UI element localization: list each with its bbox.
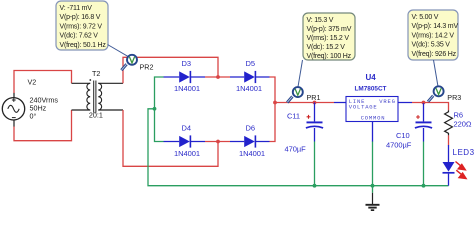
wire T2 secondary top to D3/D5 node (red) — [123, 57, 230, 83]
AC source V2 — [2, 93, 24, 127]
capacitor C11 — [285, 103, 324, 154]
diode D5 — [230, 59, 270, 93]
diode D3 — [164, 59, 206, 93]
svg-text:D6: D6 — [246, 124, 256, 133]
svg-text:COMMON: COMMON — [361, 114, 386, 121]
junction node D3-D5 — [216, 75, 220, 79]
wire C11 to ground rail (green) — [314, 142, 316, 186]
svg-text:D5: D5 — [246, 59, 256, 68]
diode D4 — [164, 124, 206, 158]
svg-text:U4: U4 — [366, 73, 377, 82]
diode D6 — [230, 124, 270, 158]
svg-text:V(dc): 15.2 V: V(dc): 15.2 V — [307, 44, 346, 51]
svg-text:D3: D3 — [182, 59, 192, 68]
svg-text:PR3: PR3 — [447, 93, 461, 102]
wire V2 minus to T2 primary bottom (red) — [14, 110, 72, 141]
LED LED3 — [443, 145, 474, 186]
svg-text:V(rms): 14.2 V: V(rms): 14.2 V — [412, 32, 455, 39]
svg-text:1N4001: 1N4001 — [174, 84, 200, 93]
measurement box PR2 readings — [56, 1, 108, 50]
svg-text:1N4001: 1N4001 — [174, 149, 200, 158]
junction positive column to output rail — [273, 101, 277, 105]
junction ground rail at C10 — [422, 184, 426, 188]
svg-text:V(rms): 9.72 V: V(rms): 9.72 V — [60, 23, 103, 30]
svg-text:V(p-p): 14.3 mV: V(p-p): 14.3 mV — [412, 23, 459, 30]
svg-text:C11: C11 — [287, 112, 300, 121]
svg-text:V(dc): 7.62 V: V(dc): 7.62 V — [60, 33, 99, 40]
measurement box PR3 readings — [408, 10, 458, 60]
svg-text:PR2: PR2 — [140, 62, 154, 71]
junction negative column to ground rail — [153, 107, 157, 111]
svg-text:LED3: LED3 — [453, 148, 474, 157]
svg-text:V(dc): 5.35 V: V(dc): 5.35 V — [412, 42, 451, 49]
callout line from PR1 box to probe PR1 — [298, 60, 303, 87]
svg-text:R6: R6 — [454, 111, 464, 120]
svg-text:V(freq): 926 Hz: V(freq): 926 Hz — [412, 51, 457, 58]
svg-text:V(freq): 100 Hz: V(freq): 100 Hz — [307, 53, 352, 60]
junction node D4-D6 — [216, 140, 220, 144]
svg-text:V(rms): 15.2 V: V(rms): 15.2 V — [307, 35, 350, 42]
measurement box PR1 readings — [303, 13, 355, 60]
T2 labels — [89, 69, 103, 120]
wire bridge positive column to U4 input (red) — [270, 77, 335, 142]
svg-text:1N4001: 1N4001 — [236, 84, 262, 93]
svg-text:V: 15.3 V: V: 15.3 V — [307, 17, 334, 24]
svg-text:PR1: PR1 — [307, 93, 321, 102]
svg-text:V(freq): 50.1 Hz: V(freq): 50.1 Hz — [60, 42, 107, 49]
V2 value labels — [28, 77, 59, 120]
probe PR3 — [428, 86, 461, 102]
svg-text:VREG: VREG — [379, 98, 395, 105]
svg-text:0°: 0° — [30, 112, 37, 121]
svg-text:V(p-p): 375 mV: V(p-p): 375 mV — [307, 26, 352, 33]
resistor R6 — [445, 110, 472, 135]
svg-text:V2: V2 — [28, 77, 37, 86]
voltage regulator U4 — [334, 73, 412, 142]
junction C11 top — [313, 101, 317, 105]
callout line from PR2 box to probe PR2 — [108, 45, 128, 57]
wire U4 common to ground rail (green) — [372, 142, 374, 193]
wire T2 secondary bottom to D4/D6 node (red) — [123, 110, 230, 166]
probe PR2 — [121, 55, 153, 72]
transformer T2 — [72, 79, 124, 113]
svg-text:V(p-p): 16.8 V: V(p-p): 16.8 V — [60, 14, 101, 21]
ground — [366, 193, 380, 210]
svg-text:VOLTAGE: VOLTAGE — [349, 104, 378, 111]
wire bridge negative column (green) — [155, 77, 164, 142]
svg-text:LM7805CT: LM7805CT — [355, 86, 387, 93]
svg-text:C10: C10 — [396, 131, 410, 140]
svg-text:V: 5.00 V: V: 5.00 V — [412, 14, 439, 21]
junction ground rail at C11 — [313, 184, 317, 188]
svg-text:220Ω: 220Ω — [454, 120, 472, 129]
probe PR1 — [287, 87, 320, 102]
wire C10 to ground rail (green) — [423, 142, 425, 186]
svg-text:V: -711 mV: V: -711 mV — [60, 5, 93, 12]
junction ground rail at U4 common — [371, 184, 375, 188]
svg-text:1N4001: 1N4001 — [239, 149, 265, 158]
wire V2 plus to T2 primary top (red) — [14, 71, 72, 94]
svg-text:4700µF: 4700µF — [386, 141, 412, 150]
wire U4 output to R6 (red) — [412, 103, 449, 111]
wire negative column to bottom ground rail (green) — [148, 109, 449, 186]
svg-text:D4: D4 — [182, 124, 192, 133]
callout line from PR3 box to probe PR3 — [434, 60, 439, 87]
svg-text:T2: T2 — [92, 69, 100, 78]
junction C10 top — [422, 101, 426, 105]
capacitor C10 — [386, 103, 432, 150]
wire R6 to LED3 (red) — [448, 135, 450, 145]
svg-text:470µF: 470µF — [285, 144, 307, 153]
svg-text:20:1: 20:1 — [89, 111, 103, 120]
